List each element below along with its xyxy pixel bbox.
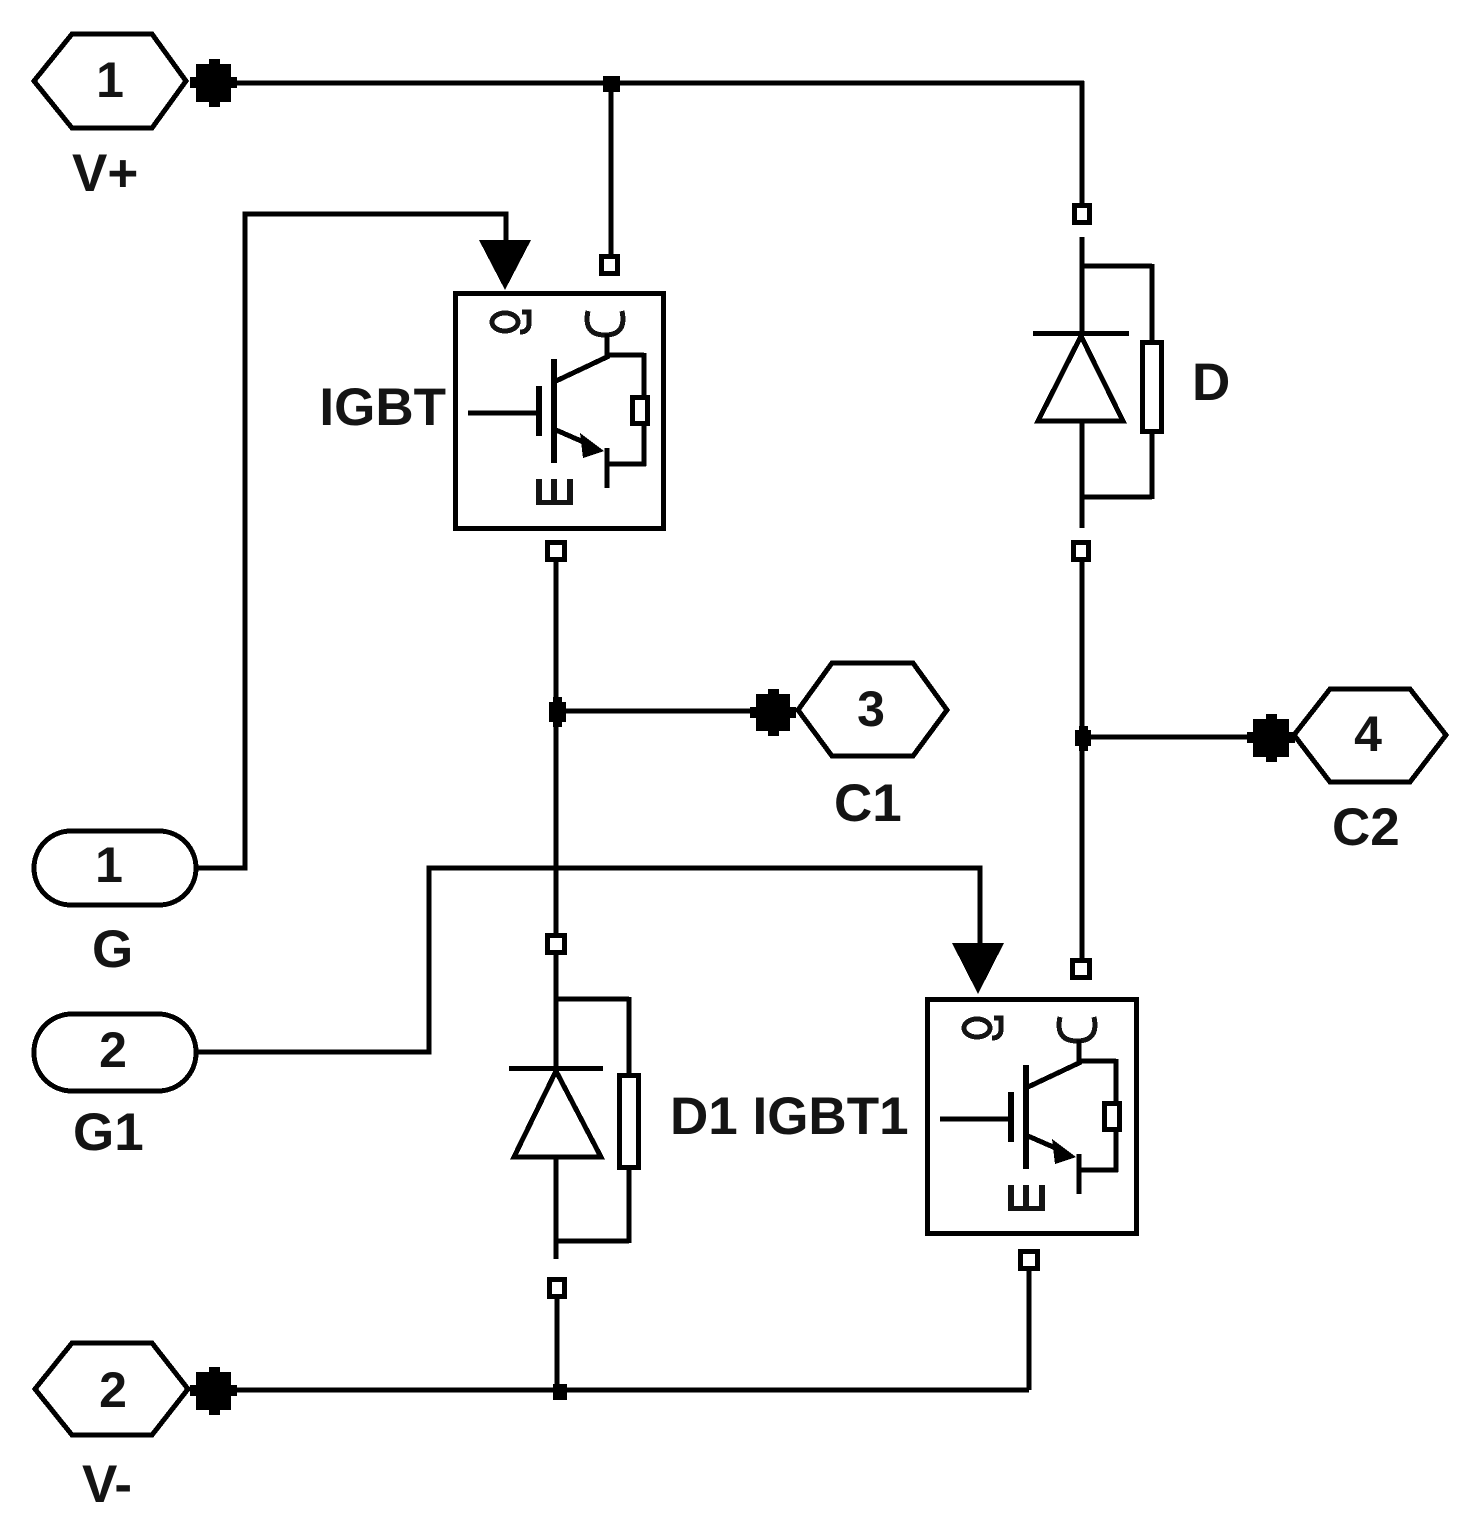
IGBT icon internal resistor bbox=[633, 398, 648, 424]
port 1 V+ hexagon bbox=[34, 34, 186, 128]
D snubber resistor bbox=[1143, 343, 1162, 432]
IGBT1 pin label E (rotated) bbox=[1008, 1185, 1045, 1211]
D snubber loop right lower bbox=[1150, 434, 1155, 499]
IGBT1 icon gate lead bbox=[940, 1117, 1008, 1122]
diode D1 cathode bar bbox=[509, 1066, 603, 1071]
connection block at V+ bbox=[190, 59, 237, 107]
IGBT1 icon bottom horizontal bbox=[1077, 1168, 1118, 1173]
svg-text:IGBT: IGBT bbox=[319, 378, 446, 437]
D1 bottom port square bbox=[550, 1280, 565, 1297]
wire junction to C2 bbox=[1082, 735, 1253, 740]
wire IGBT emitter down bbox=[554, 562, 559, 933]
port 3 C1 hexagon bbox=[798, 663, 947, 756]
wire junction to C1 bbox=[557, 709, 756, 714]
IGBT icon collector diagonal bbox=[556, 356, 609, 381]
IGBT icon gate lead bbox=[468, 411, 536, 416]
junction C1 bbox=[549, 697, 566, 727]
wire G1 to IGBT1 gate bbox=[196, 868, 980, 1052]
IGBT1 icon right vertical upper bbox=[1114, 1059, 1119, 1101]
svg-text:D: D bbox=[1192, 353, 1230, 412]
IGBT1 icon emitter arrowhead bbox=[1052, 1139, 1076, 1164]
diode D1 triangle bbox=[514, 1071, 601, 1157]
wire D port to diode bbox=[1080, 237, 1085, 333]
IGBT emitter port square bbox=[548, 543, 565, 560]
junction on V- rail bbox=[553, 1384, 567, 1400]
IGBT icon emitter vertical bbox=[605, 448, 610, 488]
wire V+ rail bbox=[231, 81, 1084, 86]
wire IGBT1 emitter to V- rail bbox=[1027, 1271, 1032, 1390]
diode D top port square bbox=[1075, 206, 1090, 223]
svg-text:1: 1 bbox=[96, 52, 124, 108]
IGBT1 icon top horizontal bbox=[1077, 1059, 1116, 1064]
IGBT1 icon gate bar bbox=[1008, 1092, 1014, 1142]
svg-text:4: 4 bbox=[1354, 706, 1382, 762]
connection block at C2 bbox=[1247, 714, 1295, 762]
svg-text:D1 IGBT1: D1 IGBT1 bbox=[670, 1087, 909, 1146]
wire diode D1 to bottom port bbox=[554, 1157, 559, 1259]
port 2 V- hexagon bbox=[35, 1343, 188, 1435]
IGBT1 icon channel bar bbox=[1023, 1065, 1029, 1169]
wire collector rail down to IGBT1 bbox=[1080, 562, 1085, 958]
D snubber loop top bbox=[1082, 264, 1152, 269]
svg-text:V+: V+ bbox=[72, 144, 138, 203]
IGBT pin label C (rotated) bbox=[587, 311, 623, 335]
IGBT1 icon right vertical lower bbox=[1114, 1132, 1119, 1172]
D1 top port square bbox=[548, 936, 565, 953]
wire junction to IGBT collector port bbox=[609, 85, 614, 254]
IGBT icon collector lead bbox=[605, 334, 610, 355]
diode D bottom port square bbox=[1074, 543, 1089, 560]
IGBT1 emitter port square bbox=[1021, 1252, 1038, 1269]
diode D cathode bar bbox=[1033, 331, 1129, 336]
IGBT icon gate bar bbox=[536, 386, 542, 436]
IGBT1 icon collector diagonal bbox=[1028, 1062, 1081, 1087]
wire V+ rail to diode D bbox=[1080, 81, 1085, 203]
svg-text:3: 3 bbox=[857, 681, 885, 737]
junction C2 bbox=[1075, 726, 1091, 751]
connection block at V- bbox=[190, 1367, 237, 1415]
svg-text:2: 2 bbox=[99, 1022, 127, 1078]
D snubber loop right upper bbox=[1150, 264, 1155, 340]
svg-text:C1: C1 bbox=[834, 774, 902, 833]
port 1 G rounded block bbox=[34, 831, 196, 905]
wire D1 port to V- rail bbox=[555, 1299, 560, 1392]
IGBT1 pin label g (rotated) bbox=[964, 1018, 1001, 1038]
IGBT1 collector port square bbox=[1073, 961, 1090, 978]
D1 snubber loop top bbox=[556, 997, 629, 1002]
wire D1 port to diode bbox=[554, 955, 559, 1068]
diode D triangle bbox=[1038, 336, 1123, 421]
D1 snubber resistor bbox=[620, 1076, 639, 1168]
IGBT icon right vertical upper bbox=[642, 353, 647, 395]
IGBT collector port square bbox=[602, 257, 618, 274]
IGBT pin label g (rotated) bbox=[492, 312, 529, 332]
D1 snubber loop right upper bbox=[627, 997, 632, 1073]
junction on V+ rail bbox=[603, 76, 620, 92]
wire diode D to bottom port bbox=[1080, 421, 1085, 528]
connection block at C1 bbox=[750, 689, 796, 736]
svg-text:V-: V- bbox=[82, 1455, 132, 1514]
IGBT1 icon emitter vertical bbox=[1077, 1154, 1082, 1194]
port 2 G1 rounded block bbox=[34, 1014, 196, 1091]
IGBT icon bottom horizontal bbox=[605, 462, 646, 467]
IGBT1 icon emitter diagonal bbox=[1028, 1136, 1060, 1150]
IGBT icon channel bar bbox=[551, 359, 557, 463]
IGBT1 icon internal resistor bbox=[1105, 1104, 1120, 1130]
IGBT icon right vertical lower bbox=[642, 426, 647, 466]
svg-text:1: 1 bbox=[95, 837, 123, 893]
IGBT icon emitter diagonal bbox=[556, 430, 588, 444]
svg-text:G: G bbox=[92, 920, 133, 979]
wire V- rail bbox=[231, 1388, 1029, 1393]
svg-text:2: 2 bbox=[99, 1362, 127, 1418]
IGBT pin label E (rotated) bbox=[536, 479, 573, 505]
IGBT block bbox=[456, 294, 664, 529]
D snubber loop bottom bbox=[1082, 495, 1152, 500]
IGBT icon top horizontal bbox=[605, 353, 644, 358]
wire G to IGBT gate bbox=[196, 214, 506, 868]
IGBT1 icon collector lead bbox=[1077, 1040, 1082, 1061]
IGBT1 pin label C (rotated) bbox=[1059, 1017, 1095, 1041]
IGBT icon emitter arrowhead bbox=[580, 433, 604, 458]
D1 snubber loop right lower bbox=[627, 1170, 632, 1243]
IGBT1 block bbox=[928, 1000, 1137, 1234]
gate arrow into IGBT bbox=[479, 240, 531, 290]
svg-text:C2: C2 bbox=[1332, 798, 1400, 857]
D1 snubber loop bottom bbox=[556, 1239, 629, 1244]
gate arrow into IGBT1 bbox=[952, 943, 1004, 994]
svg-text:G1: G1 bbox=[73, 1103, 144, 1162]
port 4 C2 hexagon bbox=[1294, 689, 1446, 782]
